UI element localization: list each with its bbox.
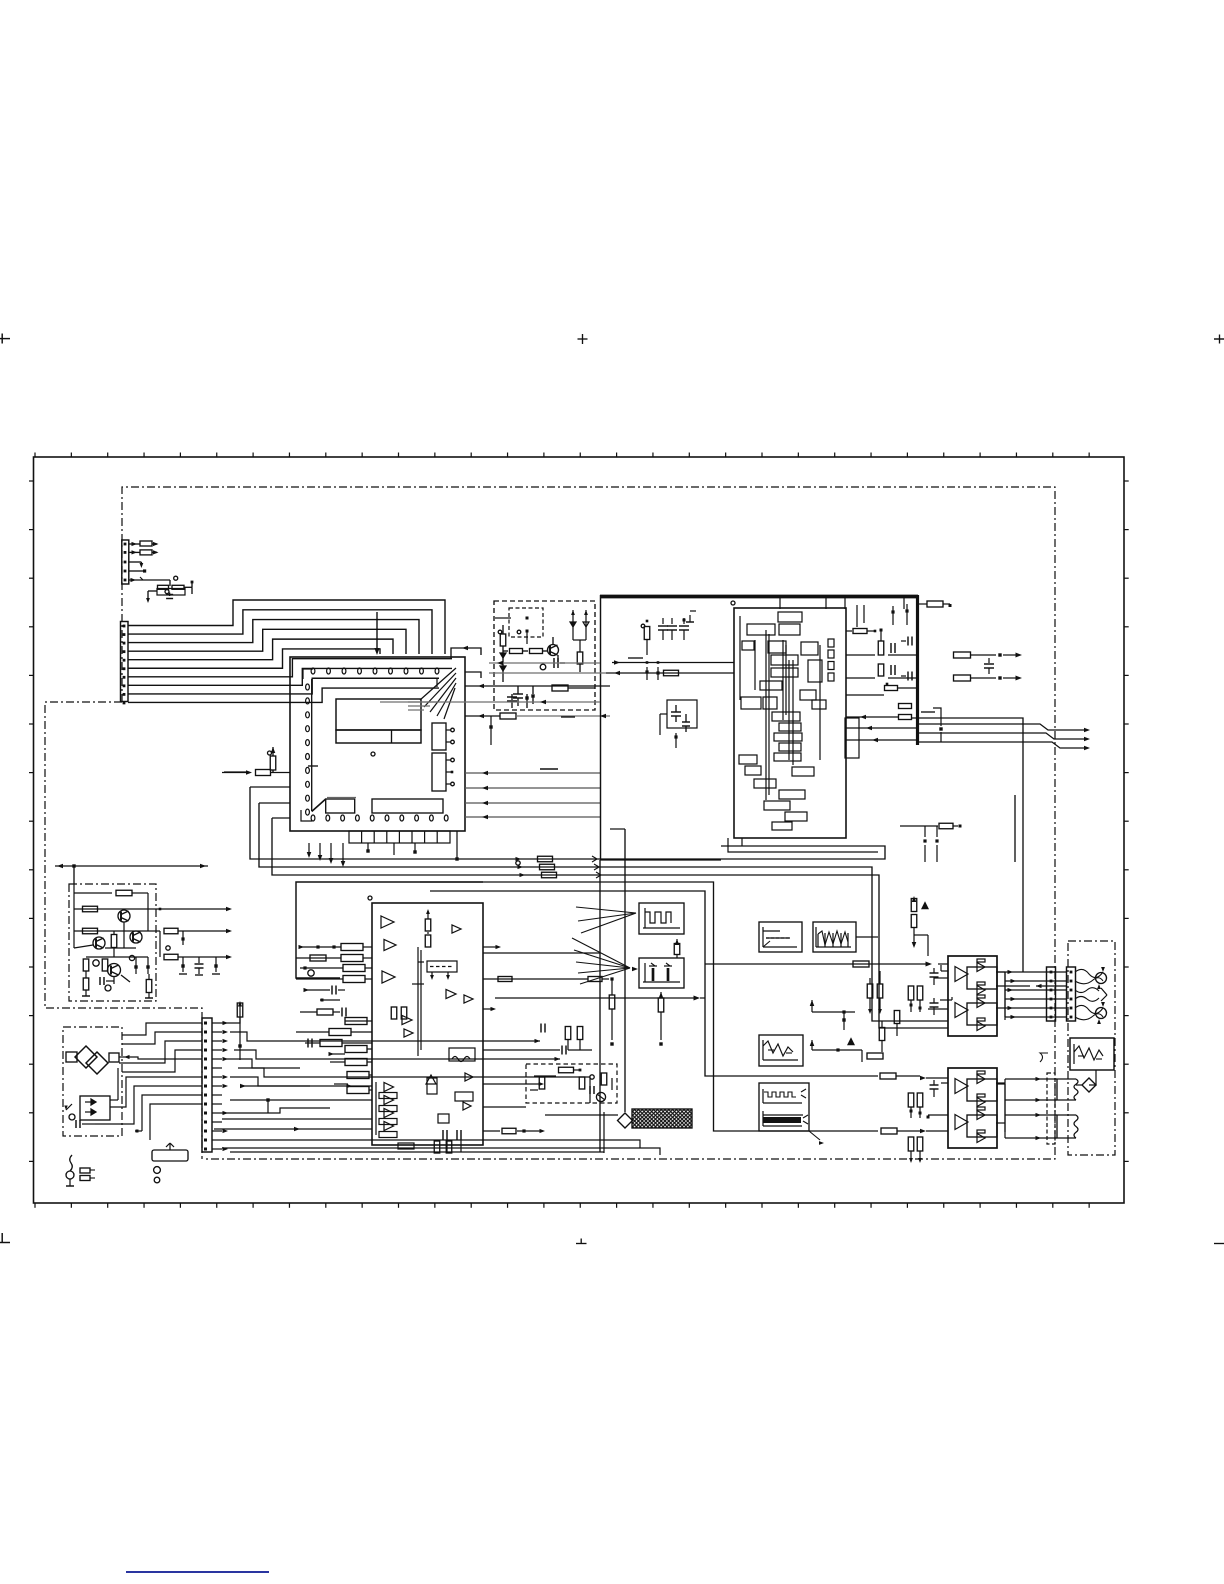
- wire CN1 pin3: [129, 562, 143, 568]
- wire out y655: [954, 652, 1023, 658]
- yoke coil mid: [1075, 988, 1107, 1002]
- regulator sub-circuit (dash-dot box): [69, 884, 156, 1001]
- wire staircase to IC401: [214, 1084, 372, 1132]
- scope box W3 (step): [759, 922, 802, 952]
- board outline (dash-dot): [45, 487, 1055, 1159]
- scope box W1 (square wave): [639, 903, 684, 934]
- wire hook A: [451, 646, 481, 658]
- border frame: [29, 453, 1129, 1208]
- mixer diamonds: [66, 1046, 130, 1074]
- wire bus around IC601 (U loops): [250, 787, 948, 1028]
- wire net vertical x604: [603, 1112, 605, 1153]
- wires to coils: [996, 1053, 1057, 1140]
- IC601 bottom stubs: [307, 831, 459, 867]
- wire long loop right: [912, 708, 1023, 972]
- scope box W4 (staircase): [813, 922, 878, 952]
- IC601 pad row: [349, 831, 450, 843]
- wire y882 down to driver2 lower: [420, 882, 948, 1134]
- wires CN102 left lower: [135, 1095, 202, 1140]
- AFC sub-circuit (dashed box): [526, 1064, 617, 1103]
- capacitor C340: [984, 658, 994, 674]
- wire staircase CN102 right: [222, 1001, 660, 1155]
- driver1 resistors below: [867, 968, 938, 1052]
- registration mark bottom-centre: [576, 1239, 587, 1244]
- driver output wires: [996, 970, 1072, 1019]
- ground tie circuit: [810, 1000, 855, 1030]
- resistor R421 vertical under W2: [658, 992, 664, 1046]
- resistor R605 vertical: [268, 747, 276, 773]
- scope box W5 (triangle wave): [759, 1035, 803, 1066]
- diamond node: [545, 1113, 633, 1128]
- wire stub arrow into IC601 top: [374, 612, 379, 655]
- output connector CN451: [1047, 967, 1076, 1021]
- sub-box with cap: [660, 700, 697, 748]
- regulator ground caps: [179, 957, 220, 975]
- wire IC601 to tuner y686: [465, 684, 610, 706]
- regulator row 3 with Q102: [74, 928, 232, 957]
- video processor block (thick border): [600, 595, 918, 860]
- wire y826 with caps: [900, 823, 962, 862]
- registration mark bottom-right: [1214, 1243, 1224, 1245]
- connector CN2: [121, 622, 129, 705]
- wire y998 join: [495, 996, 705, 1001]
- wire IC601 y716 with resistor: [465, 713, 610, 745]
- IC601 top pins: [311, 668, 439, 674]
- wire CN1 pin4: [129, 569, 146, 572]
- registration mark top-centre: [578, 334, 588, 344]
- resistor R420 vertical under W1: [674, 939, 680, 958]
- antenna diversity box (dash-dot): [63, 1027, 122, 1136]
- wire y979 with resistor: [483, 977, 615, 1046]
- dashed service connector: [1047, 1073, 1055, 1144]
- IC401 interior: [376, 909, 475, 1153]
- IC601 corner block (skewed): [312, 798, 356, 814]
- fuse switch: [66, 1155, 74, 1186]
- footer blue rule: [126, 1571, 269, 1573]
- wire y964 to driver1: [705, 961, 948, 967]
- indicator holes: [154, 1167, 161, 1183]
- resistor R120 vertical: [237, 1003, 243, 1060]
- registration mark right: [1214, 335, 1224, 344]
- grey wires into video block: [380, 661, 606, 705]
- connector CN102 strip: [202, 1018, 212, 1152]
- IC601 bottom block: [372, 799, 443, 813]
- regulator row 2 with Q101: [74, 906, 232, 948]
- tuner ground caps: [507, 685, 595, 708]
- pointer lines to scopes: [572, 907, 638, 984]
- regulator output row 3b: [164, 946, 232, 960]
- resistor R301 vertical: [641, 620, 650, 655]
- terminal pair: [80, 1168, 95, 1181]
- regulator lower row: [82, 955, 153, 998]
- resistor pair R1 R2: [146, 576, 193, 603]
- IC301 body: [731, 601, 846, 838]
- IC601 fan-out wires: [408, 668, 456, 719]
- degauss coil 1: [1057, 1079, 1078, 1100]
- wires to right connector: [917, 724, 1090, 750]
- connector CN1: [122, 540, 129, 584]
- video block top inner cells: [780, 597, 904, 609]
- degauss coil 2: [1057, 1115, 1078, 1138]
- IC301 lower nested wires: [728, 838, 878, 852]
- resistor pair R430 R431: [541, 1024, 583, 1051]
- CN102 pin arrows: [212, 1021, 228, 1151]
- IC401 left resistors: [320, 944, 369, 1094]
- IC601 bottom pins: [311, 815, 448, 821]
- jungle block outline: [296, 882, 483, 978]
- scope box W2 (pulses): [639, 958, 684, 988]
- IC601 left pins: [306, 684, 310, 815]
- IC601 right sub-block A: [432, 723, 454, 750]
- diversity lower circuit: [64, 1068, 202, 1128]
- wire hook B: [465, 672, 481, 678]
- op IC401 body: [368, 896, 483, 1145]
- wire y891 down branch: [430, 891, 948, 1080]
- wire CN1 pin5: [129, 577, 170, 586]
- wire pair into IC301: [606, 660, 734, 680]
- wire R337 top: [918, 601, 952, 607]
- wire net vertical x625: [610, 829, 625, 1112]
- isolated dash marks: [224, 658, 935, 772]
- registration mark left: [0, 334, 10, 344]
- diamond link: [1076, 1070, 1096, 1092]
- driver2 resistors: [908, 1080, 948, 1163]
- connector box right (dash-dot): [1068, 941, 1115, 1155]
- IC601 right sub-block B: [432, 753, 454, 791]
- delay line DL1 (hatched): [632, 1109, 692, 1128]
- wire net vertical x600: [483, 860, 600, 1152]
- wire bus CN2 to IC601: [128, 600, 452, 702]
- driver IC451: [948, 956, 1005, 1036]
- ground tie circuit 2: [810, 1037, 883, 1062]
- yoke coil bottom: [1075, 1002, 1107, 1024]
- registration mark bottom-left: [0, 1233, 10, 1243]
- IC301 right resistors caps: [846, 604, 918, 742]
- IC601 core block: [336, 699, 421, 756]
- IC401 left wires: [296, 945, 372, 1090]
- wire long bus left: [55, 864, 208, 884]
- transistor Q601: [527, 631, 565, 670]
- wire out y678: [954, 675, 1023, 681]
- driver1 input stubs: [928, 965, 952, 1009]
- op IC601 body: [290, 657, 465, 831]
- wire CN1 pin1 with resistor: [129, 541, 159, 546]
- wire CN1 pin2 with resistor: [129, 550, 159, 555]
- driver IC452: [948, 1068, 1005, 1148]
- jack plate: [152, 1143, 188, 1161]
- tuner components: [495, 617, 548, 683]
- IC401 right stubs: [483, 945, 592, 1134]
- IC301 inner blocks: [739, 612, 859, 830]
- regulator row 1: [74, 884, 148, 948]
- IC601 grey data wires: [465, 769, 600, 819]
- focus scope box: [1070, 1038, 1114, 1070]
- tuner sub-circuit (dashed box): [494, 601, 595, 710]
- diversity wires: [119, 1023, 202, 1072]
- tuner right diodes: [570, 610, 589, 672]
- wire into IC601 left: [222, 770, 290, 776]
- video block caps row: [658, 611, 696, 640]
- IC601 inner frame: [301, 669, 437, 821]
- resistor chain R350 R351: [911, 896, 929, 956]
- transistor Q103: [74, 931, 136, 957]
- yoke coil top: [1075, 967, 1107, 989]
- scope box W6 (pwm pair): [759, 1083, 824, 1145]
